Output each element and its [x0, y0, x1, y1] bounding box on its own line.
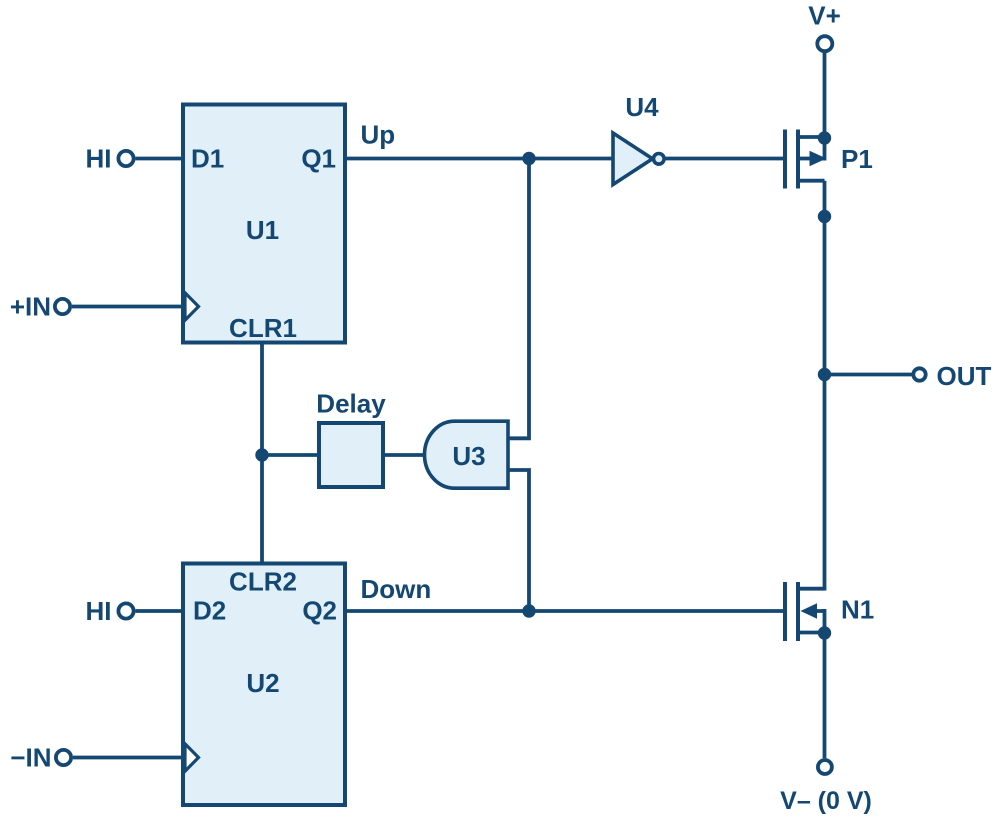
inverter U4: [613, 133, 653, 185]
supply terminal V+: [817, 36, 832, 51]
flip-flop U1 body: [183, 105, 345, 343]
svg-text:V+: V+: [808, 1, 841, 31]
svg-text:P1: P1: [841, 144, 873, 174]
svg-text:Q1: Q1: [301, 144, 336, 174]
U1 clock triangle: [185, 293, 199, 320]
wire HI to D1: [136, 157, 184, 161]
svg-text:U4: U4: [625, 92, 659, 122]
svg-text:U1: U1: [246, 215, 279, 245]
junction dot N1 source: [818, 626, 831, 639]
flip-flop U2 body: [183, 564, 345, 806]
wire -IN to U2 clock: [73, 756, 184, 760]
wire V+ to P1 source: [823, 53, 827, 161]
U2 clock triangle: [185, 744, 199, 771]
terminal +IN: [55, 299, 70, 314]
svg-text:OUT: OUT: [937, 361, 992, 391]
svg-text:U3: U3: [452, 441, 485, 471]
svg-text:Delay: Delay: [316, 389, 386, 419]
wire CLR1 to CLR2: [260, 344, 264, 565]
svg-text:N1: N1: [841, 595, 874, 625]
wire delay to U3 output: [385, 453, 427, 457]
wire U4 to P1 gate: [666, 157, 784, 161]
terminal HI (bottom): [118, 603, 133, 618]
svg-text:Down: Down: [361, 574, 432, 604]
wire junction to delay block: [262, 453, 317, 457]
svg-text:Q2: Q2: [302, 596, 337, 626]
wire +IN to U1 clock: [72, 305, 184, 309]
svg-text:−IN: −IN: [10, 743, 51, 773]
terminal V-: [818, 760, 832, 774]
junction dot OUT: [818, 368, 831, 381]
wire Up rail (Q1 to U4): [345, 157, 613, 161]
svg-text:U2: U2: [246, 668, 279, 698]
junction dot P1 source/body: [818, 131, 831, 144]
transistor P1: [785, 130, 827, 189]
wire OUT junction to OUT terminal: [825, 373, 912, 377]
wire P1 drain to N1 drain: [823, 181, 827, 591]
junction dot Down rail / U3 branch: [522, 604, 535, 617]
wire N1 source to V-: [823, 633, 827, 758]
svg-text:HI: HI: [86, 144, 112, 174]
terminal OUT: [913, 368, 925, 380]
wire Down rail (Q2 to N1 gate): [345, 609, 784, 613]
svg-text:+IN: +IN: [10, 292, 51, 322]
wire U3 bottom input to Down rail: [508, 470, 529, 611]
svg-text:CLR2: CLR2: [229, 567, 297, 597]
svg-text:D2: D2: [193, 596, 226, 626]
wire HI to D2: [136, 609, 184, 613]
junction dot P1 drain: [818, 210, 831, 223]
transistor N1: [785, 582, 825, 641]
svg-text:V– (0 V): V– (0 V): [780, 787, 872, 815]
delay block: [319, 423, 383, 487]
svg-text:D1: D1: [191, 144, 224, 174]
svg-text:HI: HI: [86, 596, 112, 626]
terminal -IN: [56, 750, 71, 765]
AND gate U3 (mirrored): [425, 421, 508, 488]
svg-text:CLR1: CLR1: [229, 313, 297, 343]
terminal HI (top): [118, 151, 133, 166]
junction dot Up rail / U3 branch: [522, 152, 535, 165]
junction dot CLR / delay branch: [255, 448, 268, 461]
wire Up rail to U3 top input: [508, 159, 529, 439]
svg-text:Up: Up: [361, 120, 396, 150]
